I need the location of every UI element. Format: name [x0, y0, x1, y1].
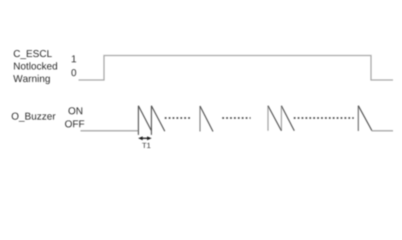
signal name Warning (line 3)	[13, 75, 50, 84]
level label 0	[71, 69, 76, 76]
signal name C_ESCL (line 1)	[14, 50, 52, 59]
wire buzzer OFF line left	[81, 130, 139, 132]
buzzer pulse burst 1 (two sawtooth teeth)	[138, 106, 164, 135]
signal name Notlocked (line 2)	[14, 62, 57, 69]
level label ON	[68, 107, 82, 114]
buzzer pulse burst 2: rising edges (lighter)	[268, 106, 281, 131]
level label 1	[72, 55, 76, 62]
signal name O_Buzzer	[12, 113, 56, 122]
level label OFF	[65, 120, 84, 127]
dimension arrow T1 (double-headed)	[138, 136, 151, 140]
buzzer single sawtooth pulse: rising edge	[199, 106, 201, 132]
buzzer final sawtooth pulse: decay slope	[358, 106, 372, 131]
buzzer single sawtooth pulse: decay slope	[200, 106, 213, 132]
buzzer final sawtooth pulse: rising edge	[357, 106, 359, 131]
dotted continuation 1	[165, 117, 191, 119]
dotted continuation 2	[222, 117, 250, 119]
wire buzzer OFF line right	[372, 130, 393, 132]
wire C_ESCL waveform (low, rising edge, high, falling edge, low)	[79, 56, 394, 81]
dimension label T1	[142, 143, 150, 148]
buzzer pulse burst 2: decay slopes	[268, 106, 294, 131]
dotted continuation 3	[294, 117, 354, 119]
